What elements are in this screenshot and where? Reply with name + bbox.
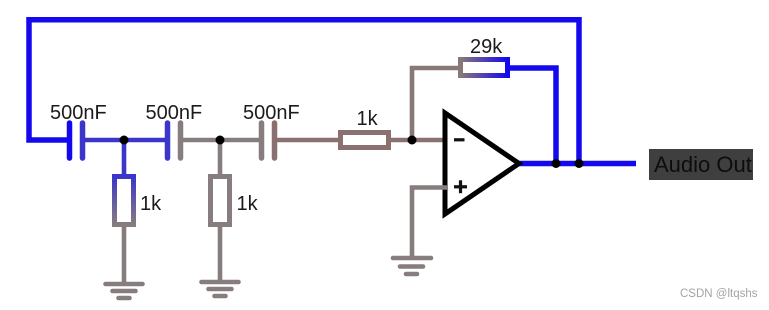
op-amp U1	[445, 113, 519, 214]
capacitor C3 500nF right plate	[272, 123, 278, 158]
wire R1 to ground 1	[122, 224, 127, 283]
wire op-amp output to Audio Out	[517, 161, 636, 167]
ground 1	[106, 284, 143, 298]
capacitor C3 500nF left plate	[259, 123, 265, 158]
svg-text:1k: 1k	[357, 108, 379, 130]
svg-text:CSDN @ltqshs: CSDN @ltqshs	[680, 288, 758, 300]
junction node A	[120, 136, 129, 145]
junction output node 1	[552, 159, 561, 168]
capacitor C2 500nF right plate	[178, 123, 184, 158]
resistor R4 29k (feedback)	[461, 60, 508, 76]
capacitor C1 500nF right plate	[80, 123, 86, 158]
capacitor C1 500nF left plate	[67, 123, 73, 158]
svg-text:1k: 1k	[140, 193, 162, 215]
resistor R3 1k (series)	[341, 133, 389, 148]
wire C1 to C2 through node A	[83, 138, 168, 143]
resistor R1 1k (shunt, node A to ground)	[115, 177, 134, 225]
svg-text:1k: 1k	[237, 193, 259, 215]
svg-text:500nF: 500nF	[243, 102, 300, 124]
Audio Out label box	[649, 149, 753, 180]
junction output node 2	[575, 159, 584, 168]
wire node A down to R1	[122, 140, 127, 178]
wire node B down to R2	[218, 140, 223, 178]
wire C3 to R3	[275, 138, 341, 143]
junction node B	[216, 136, 225, 145]
resistor R2 1k (shunt, node B to ground)	[211, 177, 230, 225]
op-amp U1 inverting input symbol	[454, 138, 465, 141]
wire R4 right lead down to output node	[508, 68, 556, 164]
svg-text:Audio Out: Audio Out	[654, 152, 752, 177]
wire feedback outer loop (output to input)	[29, 20, 579, 164]
wire R3 to op-amp inverting input through node C	[389, 138, 447, 143]
ground 3	[393, 258, 431, 274]
svg-text:500nF: 500nF	[146, 102, 203, 124]
wire node C up to R4 left lead	[412, 68, 458, 140]
wire C2 to C3 through node B	[181, 138, 262, 143]
wire op-amp non-inverting input to ground 3	[412, 188, 447, 257]
wire R2 to ground 2	[218, 224, 223, 281]
svg-text:500nF: 500nF	[50, 102, 107, 124]
junction node C	[408, 136, 417, 145]
ground 2	[202, 282, 239, 296]
svg-text:29k: 29k	[470, 36, 503, 58]
capacitor C2 500nF left plate	[165, 123, 171, 158]
op-amp U1 non-inverting input symbol	[454, 180, 467, 193]
